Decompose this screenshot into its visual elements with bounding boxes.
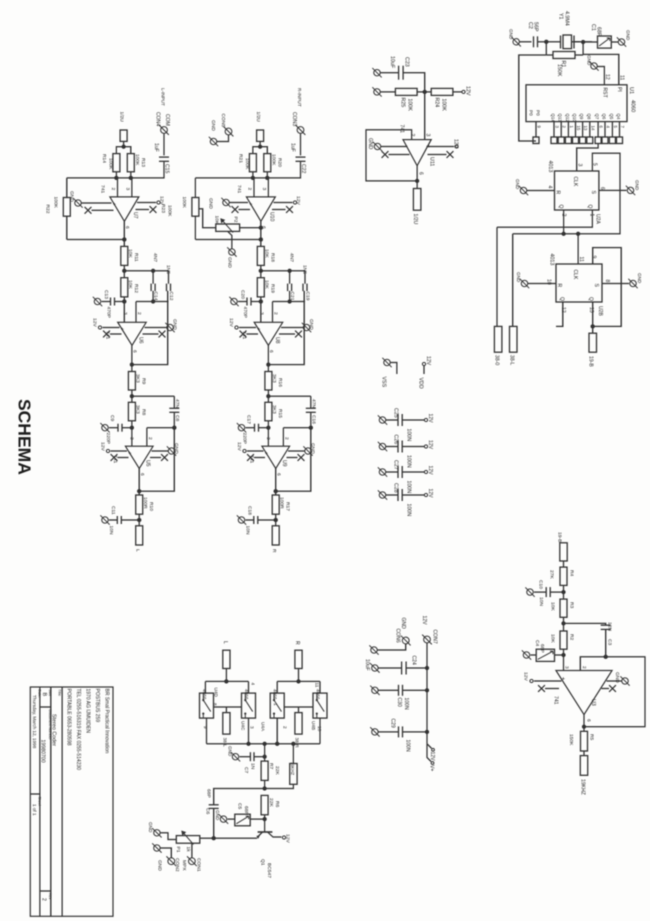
svg-text:12V: 12V (465, 86, 471, 96)
wire (138, 514, 140, 526)
node (266, 362, 270, 366)
svg-text:PORTABLE 0653-280598: PORTABLE 0653-280598 (66, 689, 72, 746)
capacitor C12 1N5 (168, 271, 170, 284)
feedback wire (276, 428, 311, 492)
node (151, 269, 155, 273)
wire to C6 (214, 789, 265, 806)
U11 feedback wire (366, 130, 417, 181)
svg-text:22K: 22K (274, 766, 280, 775)
ground at C28 (379, 492, 385, 498)
wire (160, 848, 171, 858)
svg-text:L: L (222, 641, 228, 644)
net flag 1/2U (413, 189, 421, 211)
svg-text:11: 11 (578, 257, 584, 262)
wires to op-amp inputs (117, 178, 119, 197)
trimmer potentiometer P2 10K (216, 224, 240, 231)
svg-text:4013: 4013 (547, 161, 553, 173)
net flag R (272, 526, 279, 545)
wire (123, 265, 125, 277)
svg-text:12V: 12V (523, 672, 529, 681)
svg-text:GND: GND (614, 672, 620, 683)
wire input node (195, 161, 300, 178)
svg-text:U10: U10 (269, 212, 275, 222)
svg-text:U4A: U4A (261, 722, 266, 732)
net flag 1/2U (123, 141, 125, 146)
output wire (123, 221, 125, 246)
power GND right (288, 450, 305, 452)
svg-text:GND: GND (208, 198, 214, 209)
node (265, 176, 269, 180)
svg-text:GND: GND (148, 822, 153, 833)
ground (618, 39, 624, 45)
bias pair top join wire (116, 147, 130, 154)
wire to half-rail flag (416, 166, 418, 189)
svg-text:R14: R14 (101, 154, 107, 163)
ground (102, 425, 108, 431)
svg-text:P0: P0 (529, 110, 534, 116)
output wire (275, 469, 277, 496)
unity feedback row (136, 301, 169, 303)
svg-text:9: 9 (591, 256, 597, 259)
svg-text:Rev: Rev (48, 893, 52, 900)
svg-text:100N: 100N (403, 698, 409, 710)
svg-text:Q10: Q10 (572, 114, 577, 123)
op-amp U8 741 (254, 322, 283, 345)
resistor R14 100K (113, 154, 120, 172)
capacitor C11 10N (116, 516, 118, 524)
capacitor C20 470P (246, 298, 248, 306)
title block border (30, 687, 113, 916)
connector CON2 GND (168, 858, 175, 865)
svg-text:741: 741 (399, 125, 405, 134)
svg-text:Q9: Q9 (579, 114, 584, 120)
svg-text:11: 11 (315, 683, 320, 688)
wire (583, 751, 585, 756)
svg-text:U8: U8 (274, 337, 280, 344)
svg-text:R: R (271, 549, 277, 553)
svg-text:12N: 12N (607, 622, 613, 631)
svg-text:1/2U: 1/2U (119, 112, 125, 123)
ground at U2B reset (521, 280, 527, 286)
svg-text:2: 2 (283, 726, 288, 729)
ground (232, 754, 238, 760)
output node (259, 237, 263, 241)
svg-text:R5: R5 (589, 734, 595, 741)
node (137, 518, 141, 522)
svg-text:CON2: CON2 (174, 858, 180, 872)
svg-text:12V: 12V (295, 196, 301, 205)
capacitor C28 100N (386, 494, 398, 496)
svg-text:220P: 220P (105, 433, 111, 444)
power GND right (145, 327, 167, 329)
U10 power GND left (230, 202, 249, 204)
svg-text:GND: GND (69, 191, 75, 202)
capacitor C18 10N (253, 516, 255, 524)
svg-text:P1: P1 (175, 847, 181, 853)
power 12V left (247, 450, 264, 452)
capacitor C14 4N7 (152, 271, 154, 284)
analog switch U4A 4066 (270, 693, 284, 718)
node (576, 232, 580, 236)
wire 4060 Q8 to U2A clock (577, 144, 598, 171)
svg-text:U6: U6 (138, 337, 144, 344)
svg-text:Q6: Q6 (602, 114, 607, 120)
capacitor C29 100N (378, 731, 398, 733)
flip-flop U2A 4013 (555, 171, 599, 210)
resistor R8 3K3 (128, 402, 135, 421)
left pair top wire (205, 680, 248, 682)
svg-text:10N: 10N (245, 526, 251, 535)
svg-text:741: 741 (553, 696, 559, 705)
svg-text:R23: R23 (160, 204, 166, 213)
power 12V left (111, 450, 128, 452)
row wire (132, 395, 174, 397)
svg-text:C3: C3 (607, 639, 613, 646)
svg-text:Q: Q (588, 297, 594, 301)
wire (160, 833, 176, 840)
svg-text:C12: C12 (168, 292, 174, 301)
svg-text:4N7: 4N7 (152, 253, 158, 262)
svg-text:100N: 100N (406, 429, 412, 442)
resistor R17 100R (272, 495, 279, 514)
node (121, 145, 125, 149)
op-amp U7 741 (110, 197, 139, 221)
wire (163, 134, 165, 156)
svg-text:C30: C30 (396, 698, 402, 708)
capacitor C24 10uF (378, 667, 401, 669)
svg-text:6: 6 (139, 473, 145, 476)
svg-text:PI: PI (616, 87, 622, 92)
svg-text:3: 3 (577, 164, 583, 167)
svg-text:11: 11 (619, 75, 625, 80)
wire to 12V (402, 446, 424, 448)
svg-text:U4D: U4D (214, 688, 219, 698)
wire (298, 669, 300, 682)
svg-text:12V: 12V (427, 414, 433, 424)
resistor R9 3K3 (128, 372, 135, 391)
svg-text:R15: R15 (277, 409, 283, 418)
U11 power GND left (381, 146, 408, 148)
svg-text:150K: 150K (568, 734, 574, 746)
node (137, 489, 141, 493)
svg-text:3K3: 3K3 (271, 374, 277, 383)
svg-text:CON4: CON4 (155, 112, 161, 126)
svg-text:1uF: 1uF (290, 143, 296, 152)
wire (267, 390, 269, 402)
svg-text:1/2U: 1/2U (255, 112, 261, 123)
trimmer capacitor C1 68P (598, 36, 612, 48)
svg-text:12V: 12V (427, 489, 433, 499)
wire (380, 91, 395, 93)
svg-text:C23: C23 (404, 57, 410, 67)
svg-text:GND: GND (587, 55, 592, 66)
svg-text:C25: C25 (393, 408, 399, 418)
svg-text:GND: GND (227, 257, 233, 268)
wire (380, 72, 398, 74)
wire U2A Q1 row (497, 210, 592, 227)
resistor R18 10K (257, 246, 264, 265)
resistor R4 27K (560, 567, 567, 585)
feedback wire (139, 428, 174, 492)
svg-text:GND: GND (228, 746, 233, 757)
svg-text:U5: U5 (145, 460, 151, 467)
svg-text:47N: 47N (174, 399, 180, 408)
node (561, 590, 565, 594)
analog switch U4B 4066 (313, 693, 327, 718)
ground (231, 298, 237, 304)
svg-text:Thursday, March 12, 1998: Thursday, March 12, 1998 (32, 695, 37, 749)
svg-text:R25: R25 (400, 98, 406, 108)
ground at RST (591, 63, 597, 69)
output wire (260, 221, 262, 246)
svg-text:12V: 12V (92, 318, 98, 327)
svg-text:C26: C26 (393, 435, 399, 445)
U3 power 12V left (534, 680, 562, 682)
resistor R10 100R (136, 495, 143, 514)
wire (264, 815, 266, 832)
svg-text:C11: C11 (110, 506, 116, 515)
svg-text:CON7: CON7 (432, 630, 438, 644)
resistor R19 10K (257, 278, 264, 297)
svg-text:L-INPUT: L-INPUT (161, 88, 166, 106)
svg-text:Y1: Y1 (558, 13, 564, 20)
wire (563, 561, 565, 567)
svg-text:U3: U3 (590, 699, 596, 706)
svg-text:10K: 10K (550, 602, 556, 611)
svg-text:19-B: 19-B (557, 532, 563, 542)
svg-text:1N: 1N (250, 763, 256, 770)
svg-text:22K: 22K (268, 798, 274, 807)
wire (538, 41, 561, 43)
svg-text:U11: U11 (429, 157, 435, 166)
capacitor C6 68P (209, 804, 219, 806)
svg-text:R12: R12 (133, 284, 139, 293)
node (287, 269, 291, 273)
svg-text:S: S (593, 284, 599, 288)
svg-text:15: 15 (576, 126, 581, 131)
wire to +input (123, 297, 125, 322)
resistor R24 100K (431, 88, 453, 95)
ground (238, 425, 244, 431)
svg-text:8: 8 (604, 280, 610, 283)
wire to ground (611, 41, 618, 43)
crystal Y1 4.9M4 (560, 36, 562, 49)
node (561, 621, 565, 625)
svg-text:10N: 10N (538, 597, 544, 606)
svg-text:2: 2 (283, 437, 289, 440)
connector CON7 12V input (424, 636, 431, 643)
svg-text:+: + (560, 677, 566, 680)
ground at C24 (372, 665, 378, 671)
wire to U11 input (424, 92, 426, 140)
svg-text:100N: 100N (405, 740, 411, 752)
svg-text:4060: 4060 (630, 100, 636, 112)
svg-text:4N7: 4N7 (289, 253, 295, 262)
svg-text:100K: 100K (407, 99, 413, 112)
svg-text:10K: 10K (127, 249, 133, 258)
ground (94, 298, 100, 304)
capacitor C10 10N (551, 591, 564, 593)
svg-text:GND: GND (172, 319, 178, 330)
wire to 12V (402, 471, 424, 473)
svg-text:100K: 100K (134, 154, 140, 166)
svg-text:12V: 12V (425, 356, 431, 366)
capacitor C30 100N (378, 689, 398, 691)
wire U2B Q12 stub (556, 302, 563, 326)
svg-text:POSTBUS 259: POSTBUS 259 (94, 689, 100, 723)
svg-text:BR Smal Practical Innovation: BR Smal Practical Innovation (104, 689, 110, 754)
svg-text:Size: Size (48, 689, 52, 696)
svg-text:12V: 12V (427, 466, 433, 476)
power 12V left (239, 327, 256, 329)
capacitor C2 56P (533, 36, 535, 47)
U7 power GND left (82, 202, 112, 204)
wire (225, 669, 227, 682)
svg-text:4.9M4: 4.9M4 (564, 11, 570, 26)
svg-text:C17: C17 (246, 415, 252, 424)
power GND right (281, 327, 303, 329)
svg-text:R22: R22 (44, 205, 50, 214)
svg-text:R: R (294, 641, 300, 645)
svg-text:GND: GND (635, 180, 640, 191)
resistor R7 22K (261, 761, 268, 780)
svg-text:2: 2 (581, 666, 587, 669)
svg-text:3K3: 3K3 (271, 405, 277, 414)
wire to flag 38-0 (496, 227, 498, 326)
connector CON6 ground input (402, 637, 409, 644)
svg-text:U4C: U4C (241, 721, 246, 731)
svg-text:Q1: Q1 (260, 859, 266, 866)
capacitor C22 1uF (296, 156, 306, 158)
svg-text:R17: R17 (285, 502, 291, 511)
svg-text:3: 3 (122, 312, 128, 315)
wire to 12V (453, 91, 462, 93)
ground at C23 (374, 70, 380, 76)
svg-text:470P: 470P (242, 307, 248, 318)
svg-text:U7: U7 (132, 212, 138, 219)
svg-text:C18: C18 (247, 506, 253, 515)
svg-text:R13: R13 (140, 158, 146, 167)
node (258, 145, 262, 149)
svg-text:C20: C20 (240, 290, 246, 299)
svg-text:12V: 12V (453, 139, 459, 149)
ground at C29 (372, 729, 378, 735)
net flag 1/2U (259, 141, 261, 146)
U7 power 12V right (137, 202, 156, 204)
resistor R5 150K (581, 731, 588, 751)
capacitor C26 100N (386, 446, 398, 448)
node (561, 653, 565, 657)
VSS tie to ground (384, 359, 390, 365)
V+ terminal (427, 744, 431, 762)
op-amp U6 741 (118, 322, 147, 345)
wire U2A Q2 down (563, 210, 565, 234)
capacitor C17 220P (254, 424, 256, 432)
wires to op-amp inputs (253, 178, 255, 197)
svg-text:GND: GND (637, 273, 642, 284)
U10 power 12V right (274, 202, 293, 204)
resistor 100K feedback (192, 198, 199, 217)
svg-text:3: 3 (564, 666, 570, 669)
ground (220, 816, 226, 822)
svg-text:2: 2 (247, 188, 253, 191)
ground (102, 517, 108, 523)
svg-text:14: 14 (590, 126, 595, 131)
capacitor C15 1uF (159, 156, 169, 158)
IC U1 4060 (526, 85, 627, 122)
svg-text:100N: 100N (406, 504, 412, 517)
svg-text:47N: 47N (310, 399, 316, 408)
12V rail wire (426, 643, 428, 744)
ground (210, 138, 216, 144)
node (309, 426, 313, 430)
svg-text:3: 3 (259, 312, 265, 315)
svg-text:12V: 12V (427, 440, 433, 450)
svg-text:Q7: Q7 (595, 114, 600, 120)
svg-text:12V: 12V (228, 318, 234, 327)
svg-text:R11: R11 (133, 253, 139, 262)
svg-text:R10: R10 (148, 502, 154, 511)
trimmer capacitor C5 68P (235, 814, 250, 826)
svg-text:R16: R16 (277, 378, 283, 387)
svg-text:6: 6 (599, 187, 605, 190)
svg-text:R8: R8 (141, 409, 147, 416)
ground at C2 (513, 39, 519, 45)
svg-text:4066: 4066 (273, 689, 278, 700)
U1 output pins Q4-Q14 with pads (553, 122, 555, 137)
svg-text:C6: C6 (205, 808, 211, 815)
ground at R25 (374, 89, 380, 95)
capacitor C27 100N (386, 471, 398, 473)
node (259, 269, 263, 273)
bias pair top join wire (253, 147, 267, 154)
svg-text:BC547: BC547 (266, 863, 272, 878)
net flag 19KHZ (292, 744, 294, 764)
analog switch U4C 4066 (242, 693, 256, 718)
resistor R2 10K (560, 631, 567, 649)
capacitor C13 470P (110, 298, 112, 306)
unity feedback row (147, 427, 174, 429)
svg-text:Title: Title (58, 689, 62, 696)
svg-text:100K: 100K (244, 158, 250, 170)
svg-text:1: 1 (589, 214, 595, 217)
svg-text:10uF: 10uF (389, 56, 395, 69)
transistor Q1 BC547 (258, 831, 273, 833)
svg-text:3: 3 (261, 188, 267, 191)
wire (217, 135, 229, 142)
svg-text:100K: 100K (181, 197, 187, 209)
flip-flop U2B 4013 (556, 264, 602, 302)
ground at C26 (379, 443, 385, 449)
wire to 12V (402, 494, 424, 496)
switch outputs bottom wire (206, 718, 208, 744)
capacitor C8 47N (173, 396, 175, 408)
svg-text:10uF: 10uF (364, 659, 370, 671)
svg-text:C9: C9 (109, 415, 115, 422)
wire (563, 585, 565, 599)
svg-text:R: R (556, 284, 562, 288)
svg-text:2: 2 (136, 312, 142, 315)
feedback wire (195, 239, 260, 241)
svg-text:R19: R19 (270, 284, 276, 293)
svg-text:C13: C13 (103, 290, 109, 299)
node (114, 176, 118, 180)
svg-text:C8: C8 (174, 415, 180, 422)
node (130, 362, 134, 366)
svg-text:C7: C7 (243, 767, 249, 774)
svg-text:V+: V+ (429, 765, 435, 771)
svg-text:TEL 0255-516319 FAX 0255-5142: TEL 0255-516319 FAX 0255-514230 (75, 689, 81, 771)
